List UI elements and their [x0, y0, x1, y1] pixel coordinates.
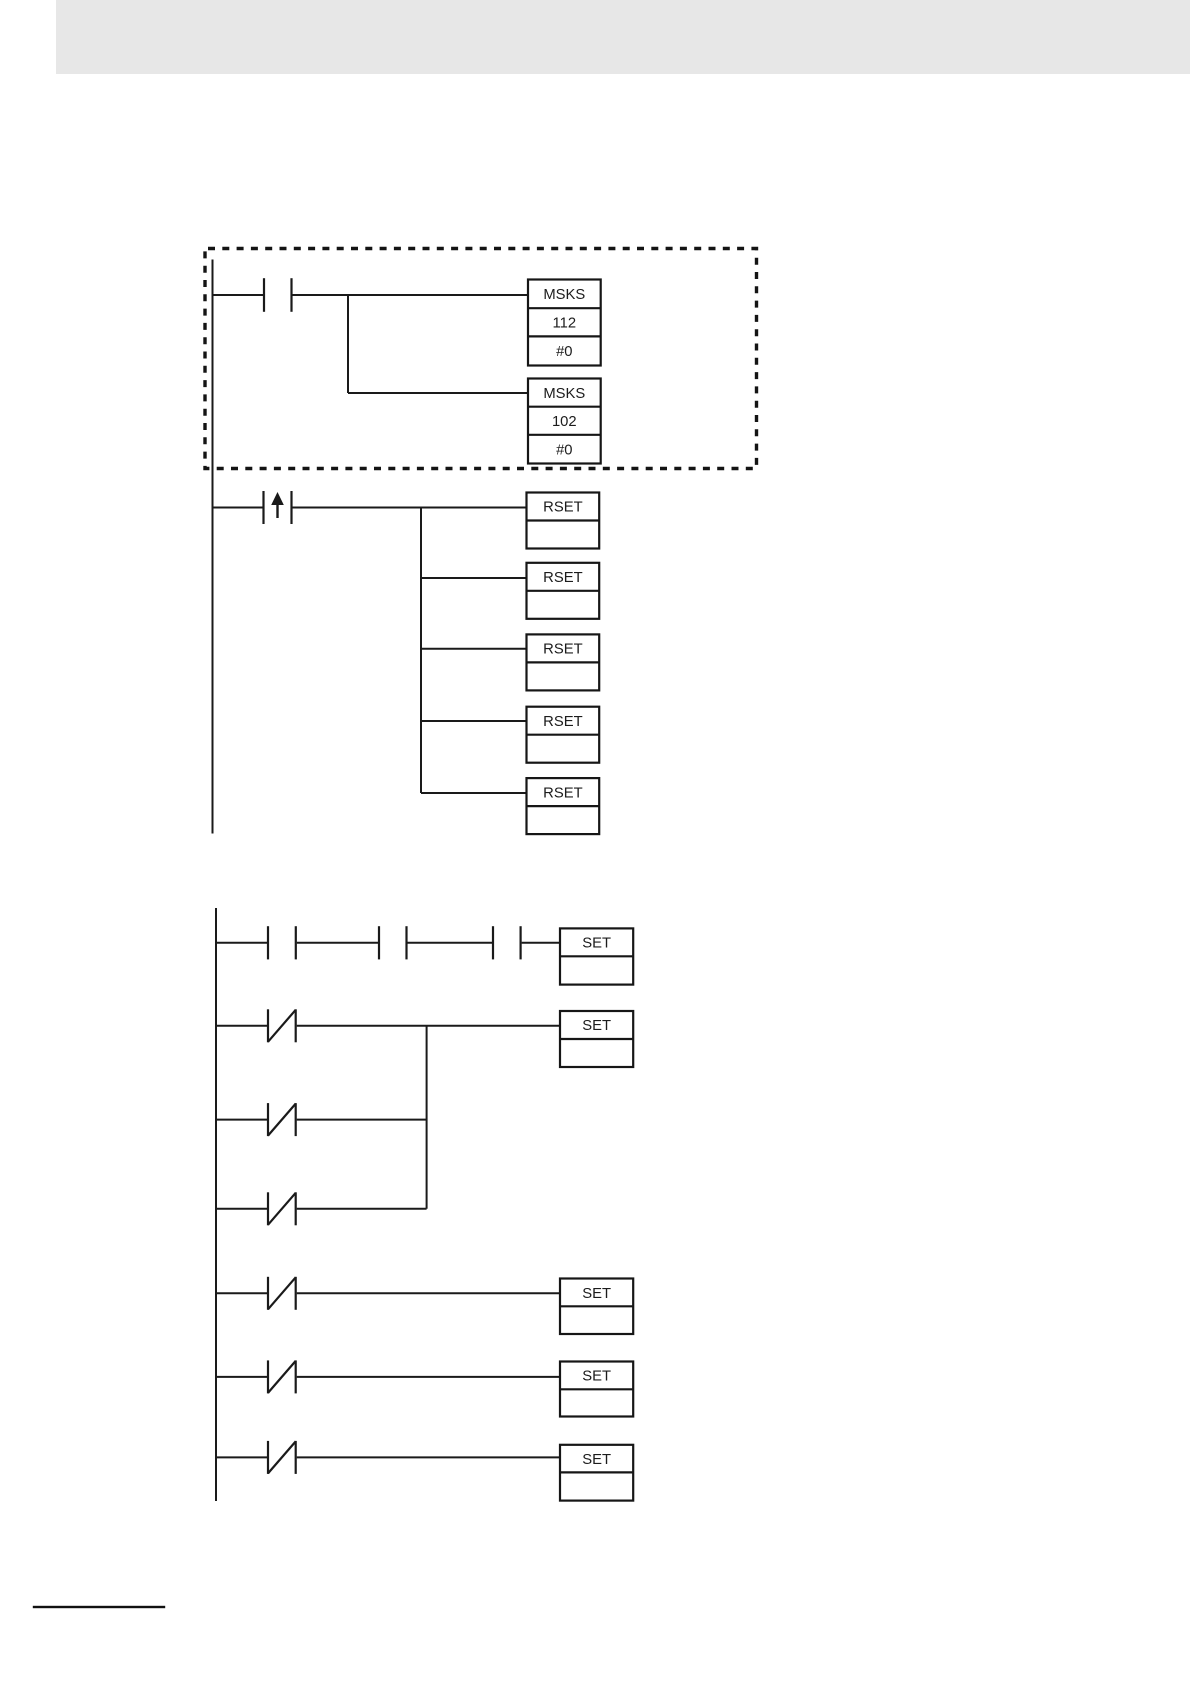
header bar: [56, 0, 1190, 74]
wire rung1 from contact to MSKS 112 box: [293, 294, 529, 296]
SET instruction box 2: [560, 1011, 633, 1067]
svg-text:112: 112: [553, 316, 577, 332]
left bus bar (lower ladder): [215, 908, 217, 1501]
NC contact C slash: [268, 1104, 296, 1136]
NO contact A2 bar 1: [378, 926, 380, 959]
NC contact C bar 1: [267, 1103, 269, 1136]
NC contact D slash: [268, 1193, 296, 1225]
RSET instruction box 5: [527, 778, 600, 834]
wire branch vertical to second MSKS rung: [347, 295, 349, 393]
MSKS instruction box 112: [528, 280, 601, 366]
svg-text:RSET: RSET: [543, 714, 582, 730]
NC contact F bar 2: [295, 1360, 297, 1393]
wire branch vertical for RSET rungs: [420, 508, 422, 794]
wire rungG from bus to NC contact G: [216, 1456, 267, 1458]
NO contact A3 bar 2: [519, 926, 521, 959]
svg-text:MSKS: MSKS: [543, 386, 585, 402]
svg-text:#0: #0: [556, 344, 572, 360]
wire rung1 from bus to contact: [213, 294, 264, 296]
NC contact B bar 2: [295, 1009, 297, 1042]
svg-text:SET: SET: [582, 1286, 611, 1302]
svg-text:SET: SET: [582, 1452, 611, 1468]
wire branch rung to MSKS 102 box: [348, 392, 528, 394]
svg-text:SET: SET: [582, 936, 611, 952]
svg-text:SET: SET: [582, 1018, 611, 1034]
SET instruction box 4: [560, 1362, 633, 1417]
NC contact G slash: [268, 1441, 296, 1473]
RSET instruction box 4: [527, 707, 600, 763]
svg-text:#0: #0: [556, 442, 572, 458]
NO contact A1 bar 1: [267, 926, 269, 959]
SET instruction box 5: [560, 1445, 633, 1501]
MSKS 102 labels: [543, 386, 585, 459]
svg-text:MSKS: MSKS: [543, 287, 585, 303]
wire rungC from contact to branch: [297, 1119, 427, 1121]
NC contact F slash: [268, 1361, 296, 1393]
MSKS instruction box 102: [528, 379, 601, 464]
wire branch rung to RSET box 5: [421, 792, 527, 794]
wire rungF from bus to NC contact F: [216, 1376, 267, 1378]
NC contact G bar 1: [267, 1441, 269, 1474]
wire rungF from contact to SET box 4: [297, 1376, 560, 1378]
SET instruction box 1: [560, 928, 633, 984]
wire rungD from bus to NC contact D: [216, 1208, 267, 1210]
left bus bar (upper ladder): [212, 260, 214, 834]
NC contact C bar 2: [295, 1103, 297, 1136]
svg-text:RSET: RSET: [543, 500, 582, 516]
wire branch rung to RSET box 4: [421, 720, 527, 722]
NO contact A1 bar 2: [295, 926, 297, 959]
rising edge contact bar 1: [262, 491, 264, 524]
NO contact bar 2 (rung1): [290, 278, 292, 312]
svg-text:SET: SET: [582, 1369, 611, 1385]
NC contact B slash: [268, 1010, 296, 1042]
SET instruction box 3: [560, 1279, 633, 1335]
wire branch rung to RSET box 3: [421, 648, 527, 650]
wire rung2 from bus to rising-edge contact: [213, 507, 263, 509]
NC contact D bar 2: [295, 1192, 297, 1225]
svg-text:102: 102: [552, 414, 577, 430]
wire rung2 from contact to RSET box 1: [293, 507, 527, 509]
wire rungB from bus to NC contact B: [216, 1025, 267, 1027]
wire rungB from contact to SET box 2: [297, 1025, 560, 1027]
NC contact D bar 1: [267, 1192, 269, 1225]
NO contact A2 bar 2: [405, 926, 407, 959]
wire rungC from bus to NC contact C: [216, 1119, 267, 1121]
wire rungG from contact to SET box 5: [297, 1456, 560, 1458]
wire rungA between contact A2 and A3: [408, 942, 493, 944]
RSET instruction box 3: [527, 634, 600, 690]
NC contact E bar 2: [295, 1277, 297, 1310]
NO contact bar 1 (rung1): [263, 278, 265, 312]
MSKS 112 labels: [543, 287, 585, 360]
svg-text:RSET: RSET: [543, 570, 582, 586]
RSET instruction box 2: [527, 563, 600, 619]
wire rungA from contact A3 to SET box 1: [522, 942, 560, 944]
rising edge arrow shaft: [276, 504, 278, 519]
NC contact F bar 1: [267, 1360, 269, 1393]
NC contact E bar 1: [267, 1277, 269, 1310]
wire branch vertical joining rungs B C D: [426, 1026, 428, 1209]
svg-text:RSET: RSET: [543, 642, 582, 658]
NO contact A3 bar 1: [492, 926, 494, 959]
rising edge arrow head: [271, 492, 284, 505]
wire rungD from contact to branch: [297, 1208, 427, 1210]
rising edge contact bar 2: [290, 491, 292, 524]
wire branch rung to RSET box 2: [421, 577, 527, 579]
svg-text:RSET: RSET: [543, 785, 582, 801]
wire rungE from bus to NC contact E: [216, 1292, 267, 1294]
wire rungA between contact A1 and A2: [297, 942, 378, 944]
NC contact G bar 2: [295, 1441, 297, 1474]
NC contact B bar 1: [267, 1009, 269, 1042]
wire rungA from bus to first NO contact: [216, 942, 267, 944]
dashed highlight box around first rung: [205, 249, 757, 469]
NC contact E slash: [268, 1277, 296, 1309]
footer rule: [33, 1606, 165, 1608]
RSET instruction box 1: [527, 493, 600, 549]
wire rungE from contact to SET box 3: [297, 1292, 560, 1294]
